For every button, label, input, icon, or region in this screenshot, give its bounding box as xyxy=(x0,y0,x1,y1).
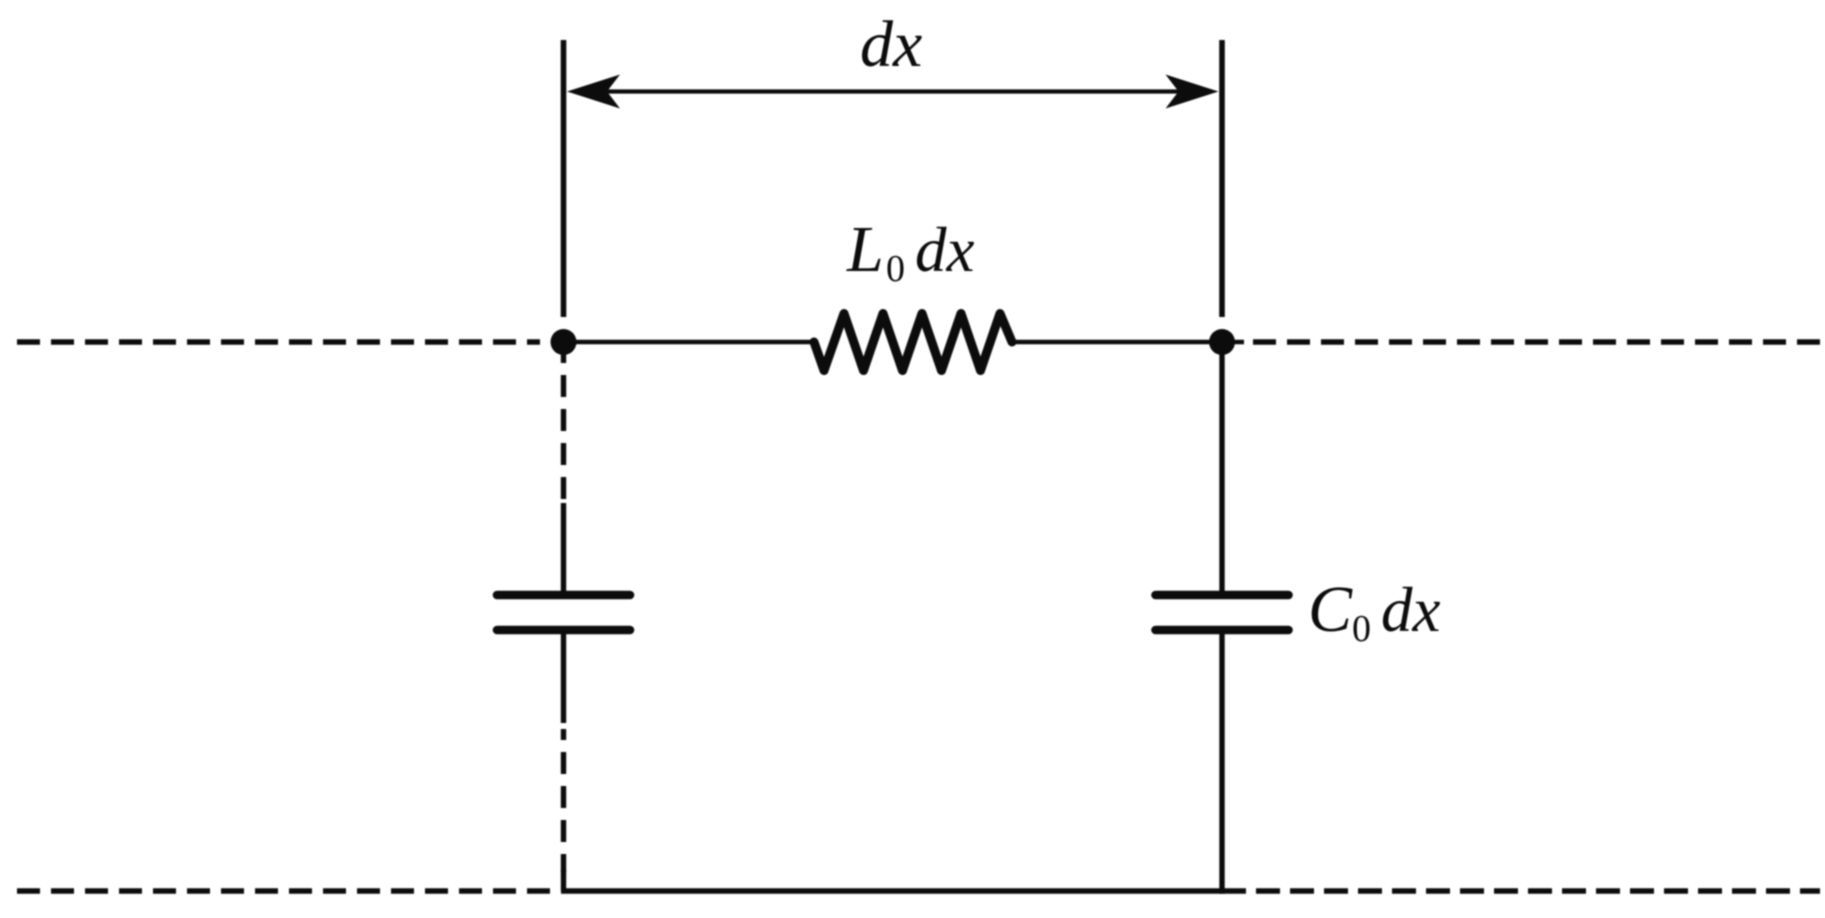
left shunt branch: dashed wire below node A xyxy=(561,352,566,505)
wire: node A to inductor xyxy=(564,340,816,345)
top conductor: dashed line, right of node B xyxy=(1253,339,1820,344)
left shunt branch: solid elbow into bottom conductor xyxy=(561,870,566,891)
inductor L0 dx (zigzag) xyxy=(814,314,1012,371)
bottom conductor: dashed line, right part xyxy=(1256,888,1820,893)
capacitor C0 bottom lead xyxy=(1219,634,1224,894)
capacitor C0 top lead (right branch below node B) xyxy=(1219,352,1224,592)
svg-text:C: C xyxy=(1308,573,1353,646)
dimension arrow dx (double-headed) xyxy=(567,75,1219,109)
capacitor (left, ghost) bottom lead xyxy=(561,634,566,723)
svg-text:0: 0 xyxy=(886,248,905,290)
svg-text:0: 0 xyxy=(1352,608,1371,650)
label C0 dx xyxy=(1308,573,1441,650)
svg-text:dx: dx xyxy=(860,8,922,81)
svg-text:dx: dx xyxy=(1381,575,1441,645)
svg-text:dx: dx xyxy=(915,215,975,285)
wire: left vertical extent line of section xyxy=(561,40,567,317)
capacitor C0 bottom plate xyxy=(1156,626,1289,635)
capacitor (left, ghost) bottom plate xyxy=(497,626,630,635)
capacitor (left, ghost) top lead xyxy=(561,503,566,592)
node A (left junction dot) xyxy=(551,329,577,355)
label L0 dx xyxy=(846,213,975,290)
bottom conductor: dashed line, left part xyxy=(17,888,552,893)
wire: right vertical extent line of section xyxy=(1219,40,1225,317)
capacitor (left, ghost) top plate xyxy=(497,591,630,600)
capacitor C0 top plate xyxy=(1156,591,1289,600)
left shunt branch: dashed wire below capacitor xyxy=(561,729,566,872)
top conductor: dashed line, left of node A xyxy=(17,339,540,344)
bottom conductor: solid wire between branches xyxy=(561,888,1246,893)
wire: inductor to node B xyxy=(1011,340,1244,345)
node B (right junction dot) xyxy=(1209,329,1235,355)
svg-text:L: L xyxy=(846,213,884,286)
